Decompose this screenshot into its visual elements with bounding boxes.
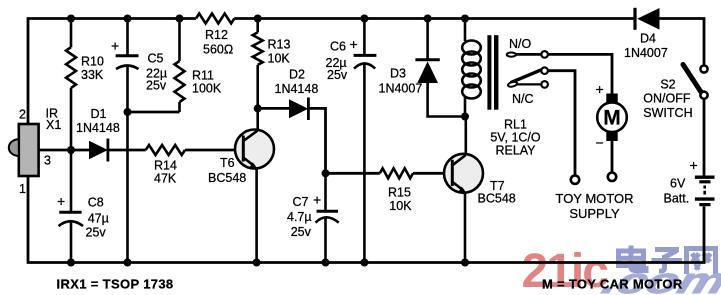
diode D1 1N4148 (89, 139, 108, 162)
relay contact N/O (507, 51, 548, 58)
watermark CJK 网 (687, 249, 716, 275)
svg-text:R12: R12 (205, 28, 228, 42)
svg-text:RELAY: RELAY (495, 144, 536, 158)
svg-text:SWITCH: SWITCH (643, 106, 692, 120)
diode D4 1N4007 (635, 8, 660, 30)
svg-text:2: 2 (19, 108, 26, 122)
wire R15 to T7 base (413, 172, 452, 175)
svg-text:R13: R13 (268, 38, 291, 52)
capacitor C7 4.7u (316, 173, 339, 262)
svg-text:+: + (313, 192, 321, 208)
svg-text:5V, 1C/O: 5V, 1C/O (490, 131, 541, 145)
svg-text:R10: R10 (81, 55, 104, 69)
terminal supply left (571, 176, 579, 184)
svg-text:RL1: RL1 (504, 118, 527, 132)
svg-text:C7: C7 (293, 195, 309, 209)
svg-text:SUPPLY: SUPPLY (569, 206, 620, 221)
svg-text:R14: R14 (154, 159, 177, 173)
diode D3 1N4007 (415, 19, 465, 117)
wire N/O contact to motor (548, 54, 612, 93)
svg-text:47µ: 47µ (88, 212, 109, 226)
svg-text:ON/OFF: ON/OFF (643, 92, 691, 106)
svg-text:C6: C6 (330, 40, 346, 54)
svg-text:47K: 47K (154, 172, 177, 186)
svg-text:C8: C8 (88, 196, 104, 210)
capacitor C6 22u (354, 19, 377, 263)
svg-text:10K: 10K (268, 52, 291, 66)
relay RL1 coil (462, 19, 481, 117)
resistor R11 100K (175, 19, 185, 113)
svg-text:+: + (350, 36, 358, 52)
svg-text:M: M (603, 107, 621, 130)
svg-text:BC548: BC548 (208, 171, 246, 185)
svg-text:D2: D2 (289, 68, 305, 82)
svg-text:10K: 10K (389, 199, 412, 213)
wire C7 junction to R15 (326, 172, 380, 175)
wire battery to bottom rail and bottom rail and left edge from sensor (28, 176, 704, 263)
motor M (597, 94, 627, 142)
svg-text:560Ω: 560Ω (203, 43, 233, 57)
svg-text:T6: T6 (220, 156, 235, 170)
svg-text:25v: 25v (86, 226, 107, 240)
svg-text:N/C: N/C (512, 92, 534, 106)
svg-text:M = TOY CAR MOTOR: M = TOY CAR MOTOR (542, 276, 683, 291)
svg-text:1N4148: 1N4148 (275, 82, 319, 96)
svg-text:25v: 25v (291, 225, 312, 239)
wire top rail right corner down to switch S2 (659, 19, 705, 65)
svg-text:−: − (596, 135, 604, 151)
svg-text:S2: S2 (660, 78, 675, 92)
wire C5/R11 bottom junction (128, 111, 180, 114)
svg-text:D1: D1 (91, 107, 107, 121)
switch S2 (683, 65, 708, 99)
svg-text:BC548: BC548 (478, 192, 516, 206)
watermark 21ic logo (522, 245, 609, 295)
wire top rail left section with left edge down to IR sensor (28, 19, 196, 125)
svg-text:TOY MOTOR: TOY MOTOR (555, 191, 633, 206)
svg-text:+: + (690, 157, 698, 173)
svg-text:Batt.: Batt. (664, 192, 690, 206)
wire top rail middle section (234, 17, 634, 20)
svg-text:1N4148: 1N4148 (76, 121, 120, 135)
svg-text:C5: C5 (148, 52, 164, 66)
svg-text:33K: 33K (81, 68, 104, 82)
transistor T6 BC548 (235, 108, 274, 262)
svg-text:+: + (111, 38, 119, 54)
wire motor to supply terminal (611, 141, 614, 172)
diode D2 1N4148 with feed wire (258, 98, 326, 174)
svg-text:25v: 25v (327, 68, 348, 82)
svg-text:1: 1 (19, 182, 26, 196)
watermark .com script (597, 261, 721, 295)
watermark CJK 子 (652, 250, 683, 272)
resistor R15 10K (380, 168, 413, 178)
svg-text:25v: 25v (146, 79, 167, 93)
svg-text:+: + (57, 193, 65, 209)
resistor R14 47K (146, 145, 185, 155)
svg-text:4.7µ: 4.7µ (287, 210, 312, 224)
wire IR sensor pin 3 output (39, 149, 90, 152)
resistor R12 (in top rail) (196, 14, 234, 24)
svg-text:100K: 100K (192, 82, 222, 96)
watermark CJK 电 (619, 246, 647, 271)
capacitor C8 47u (59, 150, 84, 263)
svg-text:D4: D4 (640, 32, 656, 46)
svg-text:+: + (596, 81, 604, 97)
resistor R10 33K (66, 19, 76, 151)
svg-text:1N4007: 1N4007 (624, 46, 668, 60)
svg-text:3: 3 (44, 153, 51, 167)
terminal supply right (608, 173, 616, 181)
relay contact N/C (517, 81, 548, 88)
svg-text:X1: X1 (46, 118, 61, 132)
svg-text:D3: D3 (390, 67, 406, 81)
relay core bars (487, 35, 498, 110)
svg-text:R15: R15 (388, 186, 411, 200)
wire common contact to supply terminal (548, 71, 575, 176)
resistor R13 10K (253, 19, 263, 109)
svg-text:6V: 6V (670, 177, 686, 191)
capacitor C5 22u with vertical feed line (116, 19, 139, 263)
transistor T7 BC548 (444, 117, 483, 263)
relay armature (common pole) (507, 67, 547, 87)
svg-text:N/O: N/O (509, 37, 532, 51)
battery 6V (695, 177, 715, 204)
wire R14 to T6 base (185, 149, 243, 152)
wire D1 cathode to R14 (108, 149, 146, 152)
IR sensor X1 body (9, 124, 39, 176)
svg-text:R11: R11 (192, 69, 214, 83)
wire switch S2 to battery (703, 99, 706, 176)
svg-text:1N4007: 1N4007 (379, 82, 423, 96)
svg-text:IRX1 = TSOP 1738: IRX1 = TSOP 1738 (57, 276, 174, 291)
